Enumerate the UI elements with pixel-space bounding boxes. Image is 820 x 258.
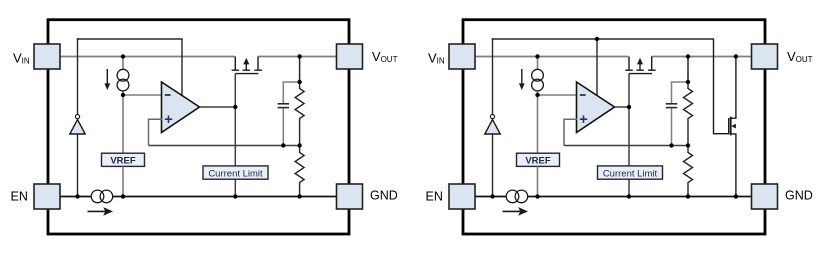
- op-amp U1 (error amplifier): [162, 82, 200, 133]
- resistor R4 (lower feedback resistor): [684, 146, 693, 197]
- buffer U4 (EN level shifter, upward triangle): [485, 120, 500, 134]
- wire: bias drop from VIN rail to current source I1: [122, 57, 124, 96]
- pass transistor Q2 (PMOS): [625, 57, 655, 74]
- op-amp U3 (error amplifier): [577, 82, 615, 133]
- wire: divider top drop from VOUT rail: [687, 57, 689, 83]
- IC body outline (right device): [463, 20, 765, 234]
- wire: top loop horizontal: [77, 38, 183, 40]
- current limit block: [203, 166, 268, 179]
- node: EN rail buffer tap: [75, 194, 79, 198]
- svg-text:GND: GND: [370, 189, 398, 203]
- node: EN rail buffer tap: [490, 194, 494, 198]
- capacitor C1 (feed-forward cap): [278, 103, 289, 105]
- node: current limit to rail: [627, 194, 631, 198]
- node: VIN bias tap: [121, 54, 125, 58]
- wire: EN / ground bottom rail: [59, 196, 338, 198]
- wire: cap branch bottom: [282, 108, 284, 145]
- node: EN rail VREF tap: [535, 194, 539, 198]
- buffer U2 (EN level shifter, upward triangle): [70, 120, 85, 134]
- wire: buffer output up to top loop: [77, 38, 79, 114]
- wire: VIN rail left segment (pad to PMOS source): [59, 56, 235, 58]
- wire: top loop horizontal (extends to discharge FET): [492, 38, 714, 40]
- node: op-amp output / gate: [627, 105, 631, 109]
- node: feedback cap join: [281, 143, 285, 147]
- pad VIN (right): [449, 44, 475, 69]
- pad GND (right): [752, 184, 778, 209]
- pad EN (left): [34, 184, 60, 209]
- arrow: Q1 body arrow up: [243, 58, 249, 65]
- node: loop tee to op-amp enable: [595, 37, 599, 41]
- capacitor C2 (feed-forward cap): [666, 103, 677, 105]
- label: non-inverting input plus: [580, 118, 587, 120]
- label: inverting input minus: [165, 94, 171, 96]
- wire: current limit block to bottom rail: [234, 179, 236, 196]
- arrow: I4 direction right: [518, 207, 528, 216]
- pad GND (left): [337, 184, 363, 209]
- wire: node down to VREF block: [537, 95, 539, 153]
- svg-text:EN: EN: [11, 189, 28, 203]
- label: non-inverting input plus: [165, 118, 172, 120]
- wire: VIN rail left segment: [474, 56, 628, 58]
- IC body outline (left device): [48, 20, 349, 234]
- node: current limit to rail: [233, 194, 237, 198]
- node: NMOS drain to rail: [734, 54, 738, 58]
- node: op-amp output / gate: [233, 105, 237, 109]
- label: inverting input minus: [580, 94, 586, 96]
- wire: feedback line to divider: [149, 145, 300, 147]
- node: feedback cap join: [669, 143, 673, 147]
- wire: enable loop vertical from EN rail to buffer: [77, 134, 79, 196]
- wire: gate node vertical (PMOS gate / current limit): [234, 74, 236, 166]
- svg-text:VREF: VREF: [110, 156, 136, 167]
- node: NMOS source to rail: [734, 194, 738, 198]
- pad VIN (left): [34, 44, 60, 69]
- discharge transistor Q3 (NMOS): [714, 39, 736, 197]
- wire: enable drop into op-amp U1: [181, 39, 183, 96]
- resistor R1 (upper feedback resistor): [295, 82, 304, 146]
- EN pull current source I2: [88, 210, 106, 212]
- inversion bubble on buffer output: [490, 115, 494, 119]
- wire: enable loop vertical from EN rail to buffer: [492, 134, 494, 196]
- node: VREF / minus input: [535, 93, 539, 97]
- node: divider bottom: [297, 194, 301, 198]
- wire: feedback line to divider: [564, 145, 688, 147]
- resistor R3 (upper feedback resistor): [684, 82, 693, 146]
- arrow: Q3 body arrow (points to channel): [731, 124, 736, 129]
- wire: VIN rail right segment (PMOS drain to VOUT pad): [258, 56, 338, 58]
- svg-text:EN: EN: [426, 189, 443, 203]
- wire: op-amp output to gate node: [615, 106, 630, 108]
- wire: bias drop from VIN rail to current source I3: [537, 57, 539, 96]
- node: EN rail VREF tap: [121, 194, 125, 198]
- EN pull current source I4: [503, 210, 521, 212]
- wire: VREF block to EN rail: [537, 166, 539, 196]
- wire: divider top drop from VOUT rail: [299, 57, 301, 83]
- resistor R2 (lower feedback resistor): [295, 146, 304, 197]
- VREF block: [517, 153, 560, 166]
- wire: current limit block to bottom rail: [628, 179, 630, 196]
- arrow: Q2 body arrow up: [637, 58, 643, 65]
- current source I3 (stacked circles): [532, 69, 544, 81]
- wire: non-inverting input to feedback node: [564, 119, 577, 145]
- wire: VREF node to op-amp inverting input: [538, 94, 577, 96]
- wire: EN / ground bottom rail: [474, 196, 753, 198]
- svg-text:GND: GND: [785, 189, 813, 203]
- pass transistor Q1 (PMOS): [232, 57, 262, 74]
- wire: compensation cap branch top: [672, 82, 689, 103]
- inversion bubble on buffer output: [75, 115, 79, 119]
- wire: node down to VREF block: [122, 95, 124, 153]
- VREF block: [102, 153, 145, 166]
- svg-text:Current Limit: Current Limit: [208, 168, 263, 179]
- pad EN (right): [449, 184, 475, 209]
- arrow: bias current direction (down): [106, 69, 108, 84]
- wire: non-inverting input to feedback node: [149, 119, 163, 145]
- arrow: I2 direction right: [103, 207, 113, 216]
- node: divider top: [297, 54, 301, 58]
- wire: VIN rail right segment: [651, 56, 753, 58]
- node: divider tee: [686, 80, 690, 84]
- pad VOUT (left): [337, 44, 363, 69]
- svg-text:VREF: VREF: [525, 156, 551, 167]
- pad VOUT (right): [752, 44, 778, 69]
- current source I1 (stacked circles): [117, 69, 129, 81]
- wire: gate node vertical (PMOS gate / current limit): [628, 74, 630, 166]
- wire: compensation cap branch top: [283, 82, 299, 103]
- wire: cap branch bottom: [671, 108, 673, 145]
- wire: buffer output up to top loop: [492, 38, 494, 114]
- node: feedback divider mid: [297, 143, 301, 147]
- node: divider tee: [297, 80, 301, 84]
- wire: enable drop into op-amp U3: [596, 39, 598, 96]
- node: divider top: [686, 54, 690, 58]
- node: VIN bias tap: [535, 54, 539, 58]
- node: feedback divider mid: [686, 143, 690, 147]
- current limit block: [598, 166, 663, 179]
- wire: op-amp output to gate node: [200, 106, 236, 108]
- node: divider bottom: [686, 194, 690, 198]
- wire: VREF node to op-amp inverting input: [123, 94, 162, 96]
- arrow: bias current direction (down): [521, 69, 523, 84]
- svg-text:Current Limit: Current Limit: [603, 168, 658, 179]
- wire: VREF block to EN rail: [122, 166, 124, 196]
- node: VREF / minus input: [121, 93, 125, 97]
